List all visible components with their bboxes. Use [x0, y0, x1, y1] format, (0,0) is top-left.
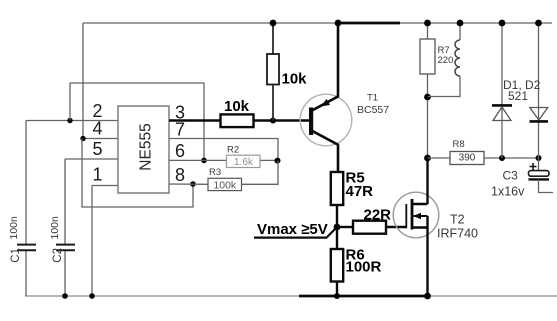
wire C1 branch upper: [25, 121, 27, 245]
node D1 bottom junction: [499, 155, 505, 161]
wire pin 2 row: [26, 120, 118, 122]
wire VCC to pin 4 (vertical at x=83): [82, 23, 84, 139]
svg-text:BC557: BC557: [357, 104, 389, 116]
transistor T2 channel bar: [411, 199, 414, 230]
transistor T2 source tap: [411, 226, 428, 228]
transistor T2 circle: [393, 192, 439, 238]
transistor T1 collector diagonal: [312, 131, 339, 145]
wire T1 collector to R5 (thick): [337, 144, 340, 172]
resistor R8 box: [450, 152, 484, 165]
wire pin 8 stub: [169, 183, 208, 185]
svg-text:22R: 22R: [364, 207, 392, 224]
wire junction to C3: [538, 158, 540, 171]
wire pin 7 to R2/R3 junction: [169, 139, 278, 161]
transistor T1 emitter diagonal: [312, 96, 339, 110]
wire pin 6 stub: [169, 159, 227, 161]
svg-text:100k: 100k: [213, 179, 237, 191]
transistor T2 arrow head: [413, 213, 421, 219]
svg-text:1.6k: 1.6k: [234, 157, 254, 168]
svg-text:100n: 100n: [8, 216, 20, 240]
wire pin 3 output (thick): [169, 119, 221, 122]
node R2/R3/pin7 junction: [275, 158, 281, 164]
wire R6 to ground (thick): [336, 282, 338, 297]
wire C2 branch upper: [64, 159, 66, 244]
svg-text:220: 220: [438, 55, 454, 66]
inductor L1 coil: [428, 23, 461, 97]
wire pin2 to pin6 feedback link: [70, 83, 204, 160]
node pin8 junction: [190, 181, 196, 187]
wire 10k to T1 base (thick): [254, 119, 310, 122]
wire node to 22R (thick): [337, 226, 353, 228]
capacitor C2: [56, 245, 75, 251]
wire rail to R7: [427, 23, 429, 39]
node pin4 junction: [80, 136, 85, 141]
wire rail to D2: [538, 23, 540, 158]
svg-text:390: 390: [459, 152, 476, 163]
node coil bottom junction: [424, 94, 431, 101]
resistor 22R box: [353, 221, 386, 234]
transistor T1 base bar: [309, 108, 313, 136]
op-amp U1 NE555 box: [118, 106, 169, 193]
node D1 rail junction: [499, 20, 506, 27]
wire R8 right lead: [484, 157, 539, 159]
svg-text:10k: 10k: [282, 71, 308, 88]
wire pin 1 stub: [92, 185, 118, 187]
svg-text:6: 6: [175, 141, 185, 161]
node pin2 junction: [67, 118, 72, 123]
svg-text:IRF740: IRF740: [437, 227, 478, 241]
svg-text:5: 5: [92, 139, 102, 159]
capacitor C1: [17, 245, 36, 251]
node Vmax junction: [334, 224, 341, 231]
capacitor C3 positive plate: [529, 171, 550, 177]
node pin6 junction: [201, 158, 207, 164]
svg-text:10k: 10k: [224, 98, 250, 115]
node T2 source ground junction: [424, 293, 431, 300]
svg-text:1x16v: 1x16v: [491, 185, 525, 199]
resistor R2 box: [227, 155, 261, 167]
svg-text:100n: 100n: [49, 216, 61, 240]
wire 10k pull-up to base node: [272, 85, 274, 121]
node D2 bottom junction: [536, 155, 542, 161]
node 10k top rail junction: [270, 20, 277, 27]
svg-text:47R: 47R: [346, 183, 374, 200]
transistor T2 drain tap: [411, 203, 428, 205]
wire pin1 to ground: [91, 186, 93, 297]
svg-text:100R: 100R: [346, 258, 382, 275]
svg-text:C2: C2: [52, 248, 64, 263]
diode D2: [530, 108, 549, 122]
svg-text:R3: R3: [209, 167, 221, 178]
node R6 ground junction: [334, 293, 340, 299]
svg-text:4: 4: [92, 119, 102, 139]
resistor R7 box: [420, 39, 435, 74]
svg-text:T1: T1: [367, 93, 378, 104]
svg-text:1: 1: [92, 165, 102, 185]
wire top supply rail: [83, 22, 552, 24]
wire C3 to output stub: [539, 179, 554, 192]
node R8 drain junction: [424, 155, 431, 162]
svg-text:8: 8: [175, 165, 185, 185]
wire T2 source to ground (thick): [426, 216, 428, 296]
wire node to R6 (thick): [336, 227, 338, 249]
wire R7 to drain column: [427, 74, 429, 158]
wire C2 branch lower: [64, 251, 66, 297]
svg-text:C3: C3: [503, 169, 519, 183]
svg-text:T2: T2: [450, 213, 465, 227]
node C2 ground junction: [62, 293, 68, 299]
node D2 rail junction: [535, 20, 542, 27]
node base junction: [270, 118, 276, 124]
wire bottom ground rail: [25, 295, 557, 297]
resistor R3 box: [208, 178, 242, 190]
wire T1 emitter to rail (thick): [337, 23, 340, 97]
wire C1 branch lower: [25, 251, 27, 297]
wire pin 4 stub: [83, 138, 118, 140]
svg-text:R2: R2: [227, 144, 239, 155]
diode D1: [492, 105, 512, 120]
transistor T2 body arrow line: [414, 215, 428, 217]
node pin1 ground junction: [89, 293, 95, 299]
svg-text:521: 521: [508, 89, 528, 103]
svg-text:NE555: NE555: [138, 123, 155, 170]
resistor 10k horizontal box: [221, 114, 254, 127]
wire rail to R8 row at drain column handled above; R8 left lead: [428, 157, 451, 159]
wire pin 5 stub: [65, 158, 118, 160]
svg-text:C1: C1: [10, 248, 22, 263]
node coil rail junction: [457, 20, 464, 27]
wire pin8 to pin4 link: [82, 139, 193, 208]
capacitor C3 plus sign: [530, 163, 537, 170]
resistor R6 box: [331, 249, 343, 282]
svg-text:7: 7: [175, 120, 185, 140]
svg-text:R8: R8: [453, 139, 465, 150]
node R7 rail junction: [424, 20, 431, 27]
capacitor C3 negative plate: [529, 178, 550, 180]
wire R5 to node (thick): [336, 205, 338, 227]
node emitter rail junction: [335, 20, 342, 27]
wire R3 right lead: [242, 161, 279, 185]
wire T2 drain (thick): [426, 158, 428, 204]
transistor T2 gate electrode: [405, 204, 407, 228]
wire rail to D1: [501, 23, 503, 158]
resistor R5 box: [331, 172, 343, 205]
transistor T1 emitter arrow: [321, 99, 331, 107]
wire VCC to 10k pull-up: [272, 23, 274, 54]
resistor 10k vertical box: [267, 54, 279, 85]
wire Vmax underline pointer: [254, 227, 337, 238]
transistor T1 circle: [300, 94, 352, 146]
wire R2 right lead: [260, 159, 278, 161]
wire 22R to T2 gate (thick): [386, 226, 406, 228]
svg-text:Vmax ≥5V: Vmax ≥5V: [257, 221, 328, 238]
